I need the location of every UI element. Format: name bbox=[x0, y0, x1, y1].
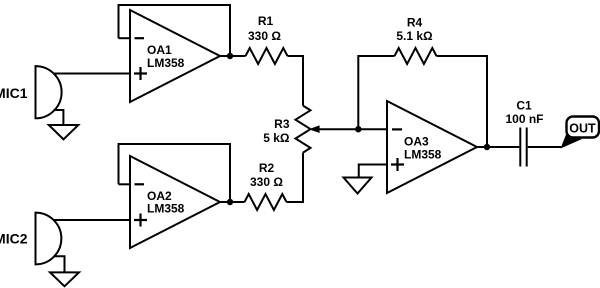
potentiometer R3 body bbox=[296, 106, 311, 153]
svg-text:LM358: LM358 bbox=[404, 148, 442, 162]
op-amp OA3 minus symbol bbox=[392, 128, 402, 130]
ground (MIC1) bbox=[49, 125, 79, 139]
svg-text:330 Ω: 330 Ω bbox=[250, 175, 283, 189]
OUT flag box bbox=[567, 117, 600, 138]
node OA2 output junction bbox=[227, 199, 233, 205]
svg-text:5 kΩ: 5 kΩ bbox=[263, 131, 290, 145]
op-amp OA3 plus symbol bbox=[391, 158, 404, 171]
op-amp U3 OA3 bbox=[387, 101, 477, 193]
potentiometer R3 wiper arrow bbox=[309, 125, 320, 133]
svg-text:LM358: LM358 bbox=[147, 202, 185, 216]
microphone MIC2 bbox=[36, 213, 62, 265]
wire OA1 output bbox=[220, 55, 246, 57]
op-amp U1 OA1 bbox=[130, 10, 220, 102]
wire MIC1 to ground bbox=[54, 110, 64, 125]
wire C1 to OUT bbox=[528, 146, 561, 148]
svg-text:100 nF: 100 nF bbox=[505, 112, 543, 126]
svg-text:MIC2: MIC2 bbox=[0, 231, 28, 247]
wire MIC2 to ground bbox=[54, 256, 65, 272]
node OA3 output junction bbox=[484, 144, 490, 150]
op-amp U2 OA2 bbox=[130, 156, 220, 248]
microphone MIC1 bbox=[36, 66, 62, 118]
resistor R1 bbox=[246, 48, 288, 64]
wire MIC1 to OA1 + input bbox=[53, 73, 130, 75]
wire OA3 feedback left vertical bbox=[358, 56, 394, 129]
wire R3 bottom to R2 bbox=[287, 153, 304, 202]
wire R3 wiper to OA3 inverting input bbox=[319, 128, 388, 130]
wire OA2 output bbox=[220, 201, 245, 203]
wire OA1 inverting input stub bbox=[119, 37, 131, 39]
resistor R4 bbox=[395, 48, 437, 64]
svg-text:OUT: OUT bbox=[569, 122, 596, 136]
svg-text:OA1: OA1 bbox=[147, 43, 172, 57]
wire MIC2 to OA2 + input bbox=[53, 219, 130, 221]
op-amp OA1 minus symbol bbox=[135, 37, 145, 39]
node R3 wiper / R4 junction bbox=[355, 126, 361, 132]
svg-text:MIC1: MIC1 bbox=[0, 85, 28, 101]
wire OA3 output to C1 bbox=[477, 146, 519, 148]
svg-text:R4: R4 bbox=[407, 16, 423, 30]
svg-text:C1: C1 bbox=[516, 99, 532, 113]
resistor R2 bbox=[245, 194, 287, 210]
wire R4 to OA3 output bbox=[437, 56, 488, 147]
svg-text:R1: R1 bbox=[258, 14, 274, 28]
svg-text:LM358: LM358 bbox=[147, 56, 185, 70]
wire OA1 feedback loop bbox=[119, 5, 231, 56]
op-amp OA1 plus symbol bbox=[134, 67, 147, 80]
ground (MIC2) bbox=[50, 272, 79, 286]
node OA1 output junction bbox=[227, 53, 233, 59]
wire OA3 + input to ground bbox=[359, 165, 387, 178]
ground (OA3) bbox=[344, 178, 372, 194]
OUT flag tail bbox=[561, 135, 583, 149]
svg-text:5.1 kΩ: 5.1 kΩ bbox=[396, 29, 433, 43]
capacitor C1 right plate bbox=[526, 128, 528, 167]
svg-text:R2: R2 bbox=[259, 161, 275, 175]
svg-text:OA3: OA3 bbox=[404, 135, 429, 149]
wire OA2 inverting input stub bbox=[119, 183, 131, 185]
capacitor C1 left plate bbox=[519, 128, 521, 167]
svg-text:330 Ω: 330 Ω bbox=[248, 29, 281, 43]
wire R1 to R3 top bbox=[288, 56, 304, 106]
svg-text:R3: R3 bbox=[274, 117, 290, 131]
op-amp OA2 plus symbol bbox=[134, 214, 147, 227]
op-amp OA2 minus symbol bbox=[135, 183, 145, 185]
wire OA2 feedback loop bbox=[119, 144, 231, 202]
